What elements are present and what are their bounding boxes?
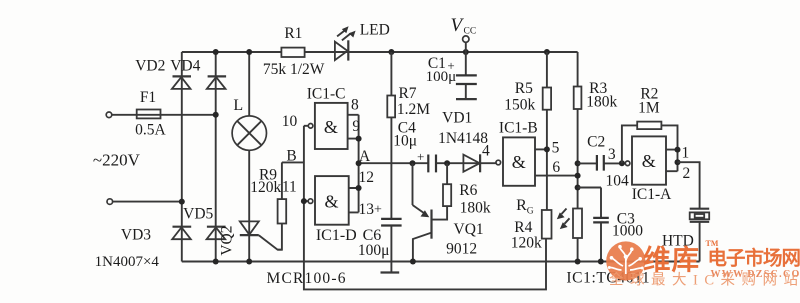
svg-text:IC1-C: IC1-C [307, 86, 346, 103]
resistor R4 [573, 209, 582, 239]
svg-text:VD5: VD5 [183, 206, 213, 223]
node B wire to R9 [282, 162, 304, 199]
label R9 [259, 166, 277, 183]
label 180k (R3) [586, 94, 617, 111]
svg-text:1: 1 [682, 145, 690, 162]
junction: VD4 top to rail [213, 49, 219, 55]
label 100u [426, 69, 457, 85]
svg-text:1N4148: 1N4148 [438, 130, 488, 147]
junction: VQ1 emitter tap [410, 160, 416, 166]
diode VD1 [463, 154, 480, 172]
junction: R2 left leg to pin3 wire [619, 160, 625, 166]
svg-text:9012: 9012 [446, 241, 477, 258]
wire: top supply rail [182, 51, 578, 53]
svg-text:+: + [417, 149, 424, 164]
svg-text:150k: 150k [504, 96, 535, 113]
label C4 [398, 120, 416, 137]
label VD2 [135, 57, 165, 74]
gate IC1-C input stubs pins 8,9 [348, 115, 359, 163]
watermark brand text [643, 244, 700, 275]
svg-text:G: G [527, 207, 534, 217]
capacitor C2 [578, 155, 622, 171]
label R3 [589, 80, 607, 97]
photoresistor RG [542, 210, 552, 239]
LED light arrows [337, 26, 356, 40]
wire: AC neutral input [113, 201, 182, 203]
svg-text:LED: LED [360, 22, 390, 39]
label 75k 1/2W [263, 61, 325, 78]
svg-text:VQ2: VQ2 [218, 226, 235, 256]
svg-text:电子市场网: 电子市场网 [708, 247, 800, 270]
junction: pin1 node [675, 147, 681, 153]
power terminal Vcc [463, 36, 469, 52]
svg-text:VD4: VD4 [170, 57, 200, 74]
junction: pin9 tie [356, 136, 362, 142]
wire: lamp/thyristor vertical upper [248, 52, 250, 116]
svg-text:C2: C2 [587, 133, 605, 150]
gate IC1-D input stubs pins 12,13 [349, 163, 359, 212]
buzzer HTD [690, 209, 710, 262]
label IC1-B [499, 119, 538, 136]
label A [359, 148, 371, 165]
label C2 [587, 133, 605, 150]
svg-text:75k 1/2W: 75k 1/2W [263, 61, 325, 78]
label 5 [552, 140, 560, 157]
svg-text:VQ1: VQ1 [454, 221, 484, 238]
svg-text:6: 6 [552, 159, 560, 176]
label 1N4007x4 [95, 254, 160, 270]
watermark TM [706, 239, 719, 248]
junction: pin6 tap [575, 173, 581, 179]
label IC1-C [307, 86, 346, 103]
wire: bottom ground rail [182, 261, 700, 263]
svg-text:B: B [286, 148, 296, 165]
watermark market text [708, 247, 800, 270]
wire: second bridge vertical (VD4/VD5 branch) [215, 52, 217, 262]
LED D [335, 40, 348, 60]
label IC1-D [316, 227, 357, 244]
label R2 [640, 85, 658, 102]
junction: pin12 tie [356, 185, 362, 191]
svg-text:R6: R6 [459, 182, 477, 199]
svg-text:12: 12 [359, 169, 375, 186]
label 1000 [612, 222, 643, 239]
junction: Vcc to rail [463, 49, 469, 55]
gate IC1-C box [315, 103, 348, 149]
label C6 [363, 227, 382, 244]
gate IC1-A input stubs pins 1,2 [666, 150, 678, 172]
svg-text:1M: 1M [638, 99, 660, 116]
svg-text:R7: R7 [398, 85, 416, 102]
capacitor C4 [428, 155, 436, 173]
label HTD [662, 233, 694, 250]
svg-text:R5: R5 [515, 80, 533, 97]
svg-text:MCR100-6: MCR100-6 [266, 270, 346, 287]
svg-text:100μ: 100μ [358, 242, 390, 259]
svg-text:100μ: 100μ [426, 69, 457, 85]
label LED [360, 22, 390, 39]
gate IC1-C output bubble pin10 [304, 124, 313, 129]
resistor R1 [281, 48, 304, 57]
gate IC1-A output bubble pin3 [625, 161, 630, 166]
label 3 [608, 146, 616, 163]
label C6 plus [374, 203, 382, 218]
label VD1 [442, 110, 472, 127]
svg-text:维库: 维库 [643, 244, 700, 275]
junction: VD5 bottom to ground rail [213, 259, 219, 265]
svg-text:120k: 120k [250, 179, 281, 196]
label IC1:TC4011 [566, 269, 650, 286]
svg-text:0.5A: 0.5A [135, 121, 166, 138]
junction: C3 bottom to ground rail [598, 259, 604, 265]
svg-text:11: 11 [282, 178, 297, 195]
svg-text:VD1: VD1 [442, 110, 472, 127]
label C1 plus [447, 58, 454, 73]
label 9012 [446, 241, 477, 258]
junction: fuse wire to VD4/VD5 [213, 112, 219, 118]
label 104 [605, 172, 629, 189]
label VD3 [121, 227, 151, 244]
svg-text:104: 104 [605, 172, 629, 189]
svg-text:4: 4 [482, 143, 490, 160]
capacitor C1 [456, 52, 477, 99]
label 2 [683, 165, 691, 182]
svg-text:&: & [642, 151, 656, 171]
gate IC1-B box [503, 137, 535, 185]
diode VD3 [172, 227, 191, 240]
svg-text:3: 3 [608, 146, 616, 163]
node A wire [359, 162, 497, 164]
svg-text:10μ: 10μ [393, 132, 417, 149]
label 1M [638, 99, 660, 116]
svg-text:IC1-A: IC1-A [632, 186, 672, 203]
label R1 [284, 25, 302, 42]
label RG [516, 197, 534, 217]
label B [286, 148, 296, 165]
label 13 [359, 201, 375, 218]
svg-text:&: & [324, 191, 338, 211]
svg-text:+: + [374, 203, 382, 218]
label C3 [617, 210, 635, 227]
label C1 [428, 55, 446, 72]
label 0.5A [135, 121, 166, 138]
svg-text:9: 9 [352, 118, 360, 135]
diode VD2 [172, 76, 191, 89]
label 100u (C6) [358, 242, 390, 259]
svg-text:F1: F1 [140, 89, 156, 106]
svg-text:R1: R1 [284, 25, 302, 42]
label R4 [514, 219, 532, 236]
svg-text:CC: CC [464, 27, 477, 37]
svg-text:120k: 120k [511, 235, 542, 252]
wire: R3/R4 divider vertical [577, 52, 579, 262]
resistor R5 [543, 88, 551, 110]
svg-text:VD3: VD3 [121, 227, 151, 244]
svg-text:IC1-B: IC1-B [499, 119, 538, 136]
junction: VQ2 cathode to ground rail [246, 259, 252, 265]
gate IC1-C output node vertical (node B riser) [304, 126, 546, 290]
label L [233, 97, 243, 114]
junction: R5 top to rail [544, 49, 550, 55]
terminal: AC input lower [107, 199, 113, 205]
transistor VQ1 [413, 163, 432, 261]
resistor R2 feedback [622, 122, 678, 164]
svg-text:&: & [324, 117, 338, 137]
label 8 [351, 96, 359, 113]
fuse F1 [137, 110, 161, 119]
label 12 [359, 169, 375, 186]
svg-text:IC1-D: IC1-D [316, 227, 357, 244]
label C4 plus [417, 149, 424, 164]
lamp L [232, 116, 266, 150]
label MCR100-6 [266, 270, 346, 287]
svg-text:R4: R4 [514, 219, 532, 236]
label 10u [393, 132, 417, 149]
junction: R6 top tap [444, 160, 450, 166]
gate IC1-D output bubble pin11 [304, 199, 313, 204]
capacitor C6 [381, 219, 402, 273]
gate IC1-D box [315, 176, 349, 225]
junction: R4 bottom to ground rail [575, 259, 581, 265]
junction: pin5 node [544, 146, 550, 152]
label VD5 [183, 206, 213, 223]
diode VD4 [207, 76, 226, 89]
label 4 [482, 143, 490, 160]
label 11 [282, 178, 297, 195]
label Vcc [451, 15, 477, 37]
svg-text:2: 2 [683, 165, 691, 182]
resistor R7 [387, 52, 395, 219]
label ~220V [93, 151, 141, 170]
svg-text:180k: 180k [460, 200, 491, 217]
junction: IC1-D output to node B riser [301, 198, 307, 204]
label 150k [504, 96, 535, 113]
svg-text:13: 13 [359, 201, 375, 218]
wire: pin6 stub [535, 175, 578, 177]
wire: pin5 stub [535, 148, 547, 150]
svg-text:全球最大IC采购网站: 全球最大IC采购网站 [609, 271, 800, 289]
junction: C3 tap [575, 185, 581, 191]
wire: R5/RG divider vertical [546, 52, 548, 210]
wire: AC live input through fuse [112, 114, 216, 116]
junction: C2 tap [575, 160, 581, 166]
resistor R6 [432, 163, 452, 219]
wire: left bridge vertical (VD2/VD3 branch) [181, 52, 183, 262]
label 1N4148 [438, 130, 488, 147]
svg-text:5: 5 [552, 140, 560, 157]
gate IC1-A box [632, 136, 666, 184]
svg-text:1N4007×4: 1N4007×4 [95, 254, 160, 270]
svg-text:&: & [512, 152, 526, 172]
watermark url [711, 269, 800, 280]
label R6 [459, 182, 477, 199]
label 120k (R4) [511, 235, 542, 252]
label 9 [352, 118, 360, 135]
svg-text:10: 10 [282, 113, 298, 130]
label IC1-A [632, 186, 672, 203]
terminal: AC input upper [106, 112, 112, 118]
label F1 [140, 89, 156, 106]
label VQ2 (rotated) [218, 226, 235, 256]
label 6 [552, 159, 560, 176]
label 10 [282, 113, 298, 130]
label VD4 [170, 57, 200, 74]
svg-text:L: L [233, 97, 243, 114]
label VQ1 [454, 221, 484, 238]
label R7 [398, 85, 416, 102]
svg-text:8: 8 [351, 96, 359, 113]
label 120k (R9) [250, 179, 281, 196]
junction: pin2/HTD node [675, 159, 681, 165]
svg-text:VD2: VD2 [135, 57, 165, 74]
label R5 [515, 80, 533, 97]
svg-text:1.2M: 1.2M [397, 101, 430, 118]
label 1.2M [397, 101, 430, 118]
label 180k (R6) [460, 200, 491, 217]
resistor R3 [574, 87, 582, 110]
wire: lamp/thyristor vertical lower [248, 150, 250, 261]
wire: to HTD [678, 162, 700, 209]
junction: R7 top to rail [388, 49, 394, 55]
svg-text:180k: 180k [586, 94, 617, 111]
gate IC1-B output bubble pin4 [496, 160, 501, 165]
junction: lamp branch to rail [246, 49, 252, 55]
junction: AC neutral to VD2/VD3 [179, 199, 185, 205]
diode VD5 [207, 227, 226, 240]
RG light arrows [557, 209, 570, 230]
capacitor C3 [578, 188, 609, 262]
watermark logo circle [606, 241, 645, 280]
junction: VQ1 collector to ground rail [410, 259, 416, 265]
junction: node A [356, 160, 362, 166]
svg-text:TM: TM [706, 239, 719, 248]
thyristor VQ2 [240, 221, 282, 249]
svg-text:~220V: ~220V [93, 151, 141, 170]
svg-text:R: R [516, 197, 527, 214]
svg-text:1000: 1000 [612, 222, 643, 239]
label 1 [682, 145, 690, 162]
resistor R9 [278, 199, 287, 250]
watermark tagline [609, 271, 800, 289]
svg-text:A: A [359, 148, 371, 165]
svg-text:V: V [451, 15, 465, 36]
